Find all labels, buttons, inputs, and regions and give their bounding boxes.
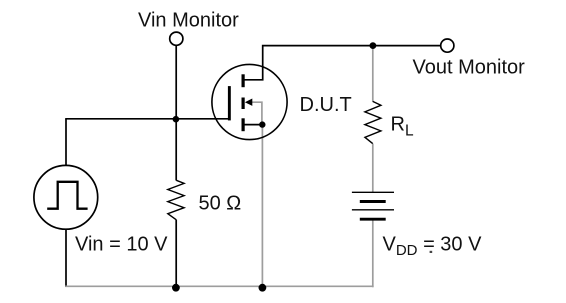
- transistor D.U.T channel bar (drain): [242, 74, 245, 87]
- wire: source vertical from MOSFET down to bottom bus (gray): [261, 125, 263, 287]
- transistor D.U.T gate bar: [228, 86, 231, 120]
- wire: battery bottom to bottom bus (gray): [372, 219, 374, 287]
- artifact dot under equals sign of VDD label: [430, 251, 433, 253]
- transistor D.U.T channel bar (source): [242, 118, 245, 131]
- wire: bottom ground bus (gray): [65, 285, 373, 287]
- wire: drain lead from channel up and across to Vout monitor: [245, 46, 441, 80]
- svg-text:Vout Monitor: Vout Monitor: [413, 57, 526, 79]
- wire: Vout node down to RL top (gray): [372, 46, 374, 102]
- resistor 50 ohm zigzag: [168, 180, 184, 220]
- svg-text:Vin = 10 V: Vin = 10 V: [75, 233, 168, 255]
- battery VDD plate: lower long thin: [352, 209, 394, 211]
- transistor D.U.T MOSFET circle: [212, 64, 287, 139]
- node: Vout junction dot: [370, 42, 377, 49]
- wire: 50-ohm resistor bottom to ground bus: [175, 220, 177, 287]
- wire: left vertical from gate run down to pulse source top: [65, 119, 67, 166]
- node: MOSFET source/body junction dot: [259, 121, 265, 127]
- wire: pulse source bottom to ground bus: [65, 229, 67, 287]
- terminal: Vin Monitor open circle: [170, 32, 183, 45]
- node: bottom bus junction dot (source branch): [259, 284, 267, 292]
- wire: source bar stub to source node: [245, 124, 263, 126]
- battery VDD plate: top long thin: [352, 191, 394, 193]
- transistor D.U.T channel bar (body): [242, 98, 245, 110]
- resistor RL zigzag: [365, 101, 381, 143]
- wire: RL bottom to battery top (gray): [372, 144, 374, 193]
- battery VDD plate: bottom short thick: [360, 218, 386, 221]
- transistor D.U.T body arrow: [245, 99, 252, 106]
- node: gate branch junction dot: [173, 116, 180, 123]
- pulse source V1 circle: [34, 165, 98, 229]
- node: bottom bus junction dot (input branch): [172, 284, 180, 292]
- svg-text:D.U.T: D.U.T: [300, 94, 352, 116]
- wire: gate horizontal run from left branch to gate bar: [65, 118, 229, 120]
- svg-text:Vin Monitor: Vin Monitor: [138, 9, 239, 31]
- wire: body connection from arrow to source node (gray): [252, 102, 262, 124]
- svg-text:RL: RL: [391, 114, 414, 140]
- wire: Vin monitor vertical drop to 50-ohm resistor top: [175, 46, 177, 181]
- svg-text:VDD = 30 V: VDD = 30 V: [383, 233, 483, 259]
- pulse source V1 waveform: [47, 182, 87, 209]
- terminal: Vout Monitor open circle: [441, 39, 454, 52]
- svg-text:50 Ω: 50 Ω: [199, 192, 242, 214]
- battery VDD plate: upper short thick: [360, 200, 386, 203]
